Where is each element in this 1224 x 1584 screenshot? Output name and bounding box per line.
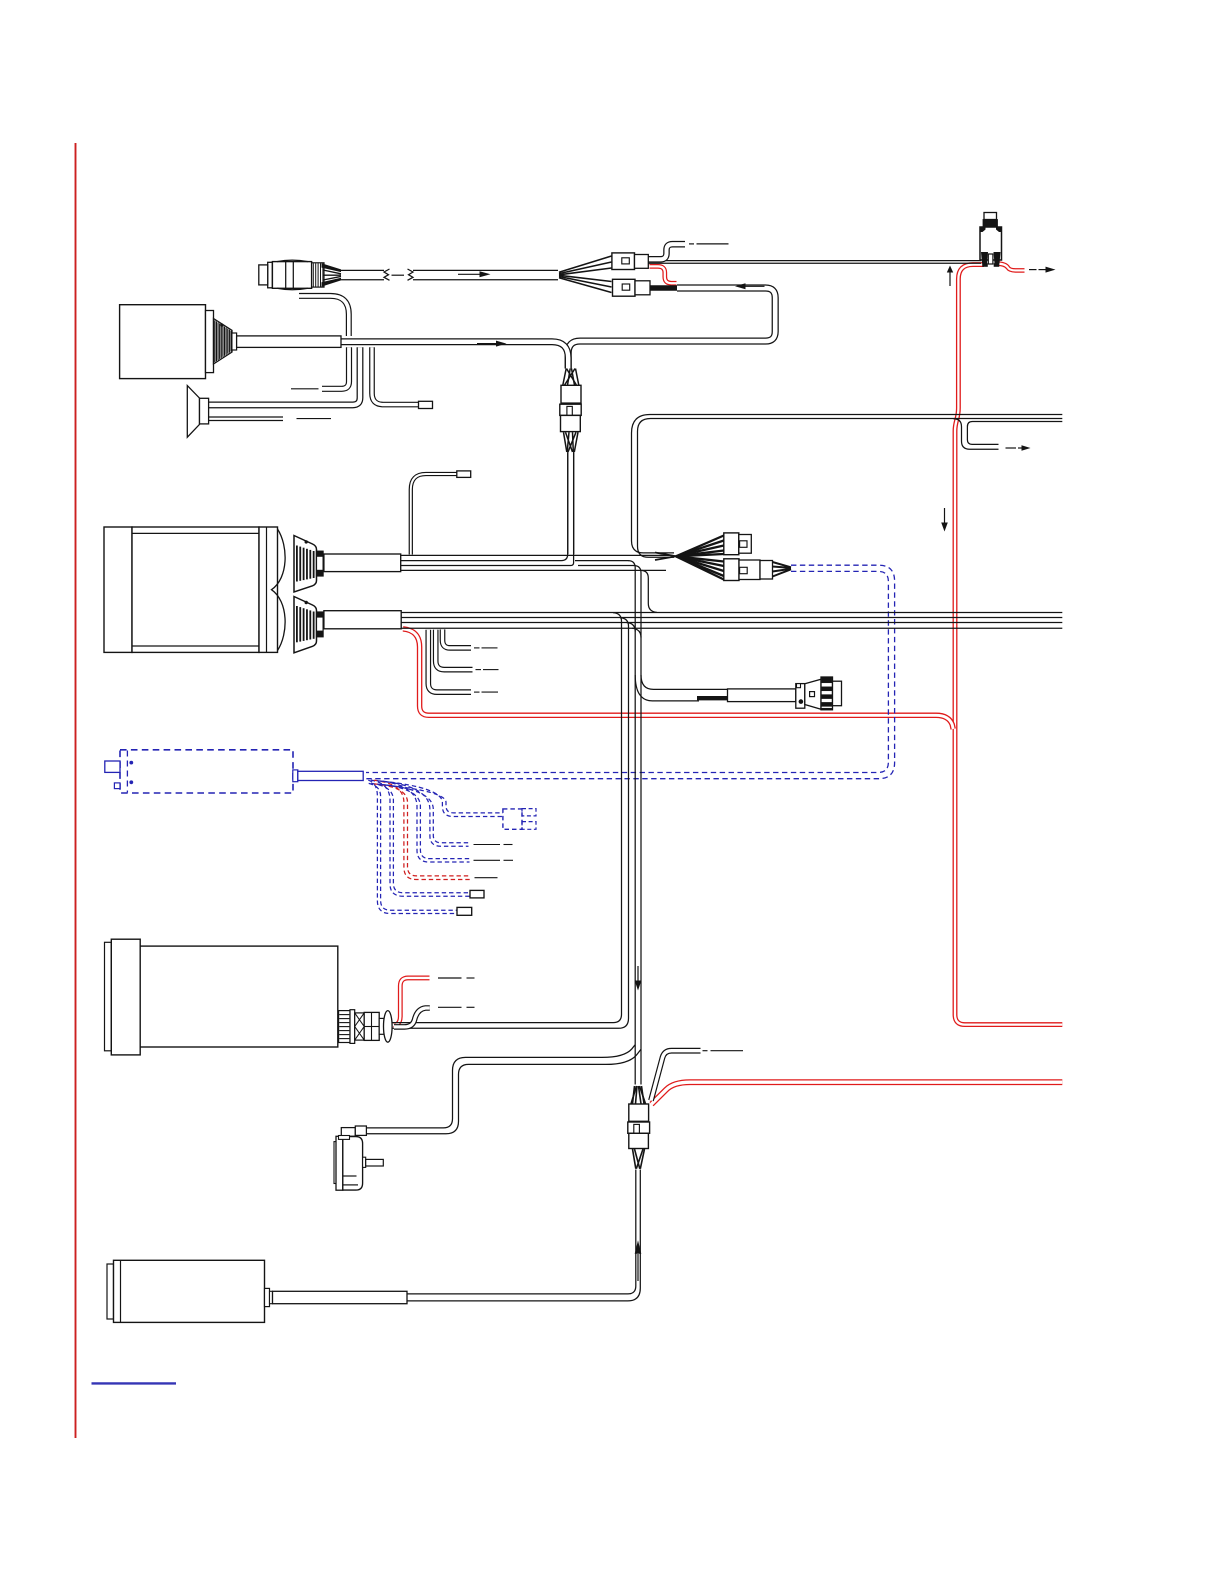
ignition coil terminal nub 2 xyxy=(270,1291,273,1303)
dual-speaker driver left cap xyxy=(104,527,132,652)
wire black pigtail at canister pump connector xyxy=(394,1008,430,1027)
upper sheath exit line 4 xyxy=(401,569,667,571)
circuit breaker body xyxy=(980,227,1002,260)
lower inline connector tab xyxy=(622,284,630,290)
microphone plug crimp zone xyxy=(312,263,324,287)
wire down-branch 2 joining horn lead xyxy=(209,347,361,405)
cable break gap dash xyxy=(392,274,405,276)
toggle switch actuator step xyxy=(363,1157,366,1167)
upper head plug rib top (black) xyxy=(317,551,324,556)
crimp wedge bottom (black) xyxy=(322,278,342,287)
junction curves bundle to riser pair B xyxy=(627,623,636,632)
stub wire 2 from bundle with label leader xyxy=(436,630,473,670)
lower sheath harness bundle line 4 xyxy=(401,627,1062,629)
lower horn head dot xyxy=(305,601,308,604)
black leader on dashed fan lead 5 xyxy=(474,844,501,846)
crimp hatch lines xyxy=(312,263,314,286)
lower sheath harness bundle line 3 xyxy=(401,622,1062,624)
breaker ear top-right (black) xyxy=(996,227,1002,232)
wire from siren driver sheath to tee corner above splice xyxy=(341,338,552,345)
ignition coil lead sheath xyxy=(273,1291,408,1303)
upper mating plug right half xyxy=(739,535,752,554)
thick converging stub at flasher connector xyxy=(697,696,728,700)
microphone plug end cap xyxy=(259,265,268,285)
splice connector fan-out strands xyxy=(633,1149,636,1169)
label leader stub wire 1 xyxy=(474,647,480,649)
horn bell xyxy=(187,386,199,438)
siren driver cone (hatched) xyxy=(214,319,233,364)
breaker terminal right (black) xyxy=(994,252,1001,264)
toggle switch inner line 2 xyxy=(343,1184,358,1186)
lower mating plug tab xyxy=(740,567,748,573)
cable break symbol right zigzag xyxy=(408,269,414,280)
wire red branch from lower sheath of dual-speaker driver, runs right, merges into red trunk xyxy=(403,629,953,729)
label leader arrow right of breaker xyxy=(1029,269,1037,271)
canister pump connector boot (oval) xyxy=(384,1011,393,1043)
siren driver cable sheath xyxy=(237,336,341,348)
driver body inner line bottom xyxy=(132,645,259,647)
relay module (blue dashed outline box) xyxy=(120,750,293,793)
splice connector lower body xyxy=(629,1133,649,1148)
microphone plug barrel bulge bottom xyxy=(277,288,308,290)
flasher ribbed ring xyxy=(821,677,833,710)
lower inline connector right half xyxy=(635,281,650,295)
splice connector mating collar xyxy=(628,1122,650,1133)
lower head plug rib top (black) xyxy=(317,612,324,617)
crimp strands xyxy=(323,270,341,274)
label leader at branch 1 stub xyxy=(291,388,319,390)
flow arrow up on splice-to-coil wire xyxy=(637,1254,639,1281)
upper inline connector body xyxy=(612,253,635,270)
tee corner down into splice xyxy=(552,342,568,369)
upper head plug xyxy=(317,551,324,576)
splice collar tab xyxy=(634,1124,640,1133)
siren driver right band xyxy=(206,311,214,373)
lower mating plug body xyxy=(724,559,739,581)
wire blue dashed fan lead 1 (longest) with terminal xyxy=(368,780,457,913)
flasher connector cable sheath xyxy=(728,689,796,702)
wire blue dashed fan lead 4 xyxy=(377,781,470,862)
flow arrow down on riser pair B xyxy=(637,966,639,981)
inline splice connector fan-out strands xyxy=(564,432,567,452)
breaker terminal foot right (black) xyxy=(994,264,999,267)
wire spade pigtail from upper sheath of dual-speaker driver xyxy=(411,474,457,555)
mid vertical riser 3 short, merges bundle xyxy=(641,570,657,612)
flow arrow up near breaker xyxy=(949,272,951,286)
wire main run from inline connectors to circuit breaker xyxy=(648,260,981,262)
lower horn head xyxy=(294,597,317,653)
harness fan point black strands to dual plugs xyxy=(676,536,724,557)
splice connector upper body xyxy=(629,1104,649,1121)
canister pump cap xyxy=(111,939,140,1055)
wire down-branch 1 to label stub at left xyxy=(322,347,349,389)
lower inline connector body xyxy=(613,279,636,296)
ignition coil box xyxy=(114,1260,265,1322)
wire label pigtail from upper inline connector xyxy=(649,244,686,259)
siren driver plug xyxy=(232,333,237,350)
inline splice connector mating collar xyxy=(560,404,581,415)
upper inline connector right half xyxy=(635,255,649,269)
label leader at canister black pigtail xyxy=(438,1006,462,1008)
canister pump body xyxy=(140,946,338,1047)
wire blue dashed fan lead 6 to small plug xyxy=(383,781,503,816)
label leader at splice black pigtail xyxy=(703,1050,708,1052)
mid vertical riser 2 xyxy=(634,566,641,1085)
flasher connector tapered body xyxy=(805,679,821,709)
wire red jumper from upper inline connector down to lower inline connector stub xyxy=(650,266,677,283)
ignition coil thin left plate xyxy=(107,1264,114,1319)
inline splice connector fan-in strands xyxy=(563,369,566,386)
wire red stub from breaker output terminal to arrow leader xyxy=(997,264,1025,271)
junction feed line 1 xyxy=(575,560,629,562)
cable break symbol left zigzag xyxy=(384,269,390,280)
flow arrow left on loop wire xyxy=(744,285,765,287)
flasher connector latch xyxy=(796,684,805,709)
fan point converging strands from left xyxy=(655,553,676,557)
wire horn lower stub xyxy=(209,416,284,421)
terminal on dashed fan lead 2 xyxy=(470,890,484,898)
horn throat box xyxy=(200,398,209,424)
upper cable sheath xyxy=(324,554,401,572)
driver band inner line xyxy=(266,527,268,652)
upper sheath exit line 2 curving up into inline splice xyxy=(401,453,568,561)
wire cable from microphone plug, segment after break to harness fan xyxy=(413,269,558,271)
siren driver cone hatch lines xyxy=(214,320,216,362)
wire black pigtail with leader at splice connector xyxy=(651,1051,701,1101)
lower sheath harness bundle line 1 xyxy=(401,612,1062,614)
breaker center tab xyxy=(988,254,993,264)
relay module mounting nub lower xyxy=(114,783,120,789)
canister pump outer cap xyxy=(105,942,112,1051)
upper inline connector tab xyxy=(622,258,630,264)
dual-speaker driver body xyxy=(132,527,259,652)
wire branch to down-right arrow leader xyxy=(967,422,1062,445)
driver body inner line top xyxy=(132,532,259,534)
relay module left cap line xyxy=(126,751,128,793)
black leader on dashed fan lead 3 xyxy=(475,877,498,879)
label leader stub wire 3 xyxy=(474,691,480,693)
wire pair from main-run corner down to harness fan point xyxy=(632,415,1063,553)
junction feed line 2 xyxy=(578,565,634,567)
canister pump connector housing xyxy=(364,1012,379,1040)
label leader stub wire 2 xyxy=(476,669,482,671)
lower head plug xyxy=(317,612,324,637)
black leader on dashed fan lead 4 xyxy=(474,859,501,861)
toggle switch terminal tab xyxy=(355,1126,366,1135)
toggle switch flange bar xyxy=(339,1136,350,1140)
relay module terminal dot lower xyxy=(129,780,133,784)
flow arrow on microphone cable xyxy=(458,273,480,275)
wire blue dashed fan lead 2 with terminal xyxy=(371,780,471,896)
flasher ring ribs (black) xyxy=(822,677,832,682)
lower horn head vent slots xyxy=(296,606,298,642)
canister pump ribbed strain relief xyxy=(339,1011,350,1043)
wire up-branch from siren driver sheath to label stub xyxy=(299,296,349,336)
wire red pigtail at canister pump connector xyxy=(394,978,430,1025)
crimp wedge top (black) xyxy=(322,263,342,272)
wire blue dashed main lead from relay plug fan to relay module, right then down then left xyxy=(366,565,895,779)
small dashed plug on fan lead 6 xyxy=(503,809,522,829)
flasher latch dot (black) xyxy=(799,699,804,704)
inline splice connector upper body xyxy=(561,385,581,403)
breaker terminal foot left (black) xyxy=(983,264,988,267)
toggle switch left panel xyxy=(336,1136,343,1190)
wire red trunk from circuit breaker down right side, bend right at bottom xyxy=(955,265,1062,1025)
label leader at canister red pigtail xyxy=(438,977,462,979)
flow arrow down on red trunk xyxy=(944,508,946,523)
lower plug right fan strands to blue lead xyxy=(773,562,792,567)
driver right band xyxy=(259,527,278,652)
splice connector fan-in strands xyxy=(633,1086,635,1104)
inline splice connector lower body xyxy=(561,415,581,431)
circuit breaker button band (black) xyxy=(983,220,998,228)
relay module lead sheath step xyxy=(293,770,298,782)
wire red battery feed ending at right, from splice connector fan xyxy=(652,1082,1063,1104)
upper horn head vent slots xyxy=(296,546,298,582)
upper horn head xyxy=(294,536,317,593)
breaker ear top-left (black) xyxy=(980,227,986,232)
label leader arrow at mid-right branch xyxy=(1006,447,1017,449)
circuit breaker reset button xyxy=(984,213,997,220)
lower head plug rib bottom (black) xyxy=(317,631,324,636)
wire from splice connector down and left to ignition coil box xyxy=(407,1170,636,1294)
microphone plug barrel xyxy=(272,262,311,289)
upper horn head dot xyxy=(305,540,308,543)
canister pump connector step xyxy=(379,1018,384,1034)
red page border line (left) xyxy=(75,143,77,1438)
hyperlink underline bottom left xyxy=(92,1382,177,1384)
wire loop from lower inline connector right, down and back left into splice xyxy=(568,288,775,369)
driver brace curve xyxy=(272,529,286,651)
spade terminal on branch 3 xyxy=(419,401,433,408)
toggle switch thin left plate xyxy=(334,1142,336,1184)
inline splice lower wire pair xyxy=(567,452,569,554)
mid vertical riser 1 from upper junction through bundle down to splice fan xyxy=(628,561,635,1085)
upper mating plug tab xyxy=(740,541,747,548)
relay module terminal dot upper xyxy=(129,761,133,765)
upper sheath exit line 3 curving up into inline splice xyxy=(401,453,574,566)
upper mating plug body xyxy=(724,533,739,555)
ignition coil terminal nub xyxy=(265,1288,270,1306)
label leader at upper inline connector xyxy=(689,243,694,245)
flow arrow on siren driver lead xyxy=(477,343,497,345)
toggle switch actuator lever xyxy=(366,1159,384,1166)
lower sheath harness bundle line 2 xyxy=(401,617,1062,619)
ignition coil box inner line xyxy=(120,1260,122,1322)
breaker terminal left (black) xyxy=(981,252,988,264)
siren driver cone dot xyxy=(220,323,223,326)
cable fan strands into dual inline connectors xyxy=(559,256,612,272)
wire toggle switch lead rising and merging riser pair B xyxy=(367,1045,636,1128)
flasher latch nub xyxy=(797,684,801,688)
lower mating plug right part xyxy=(760,561,773,580)
wire blue dashed fan lead 5 xyxy=(380,781,469,846)
small dashed plug pin lower xyxy=(522,822,536,830)
microphone plug barrel bulge top xyxy=(277,260,308,262)
canister pump flange xyxy=(350,1010,355,1044)
lower cable sheath xyxy=(324,611,401,629)
canister pump x-hatch block xyxy=(355,1013,365,1040)
upper sheath exit line 1 xyxy=(401,554,673,556)
label leader at horn lower stub xyxy=(297,418,332,420)
relay module lead sheath xyxy=(298,771,363,780)
toggle switch top step xyxy=(341,1128,355,1137)
upper head plug rib bottom (black) xyxy=(317,570,324,575)
wire red dashed fan lead 3 xyxy=(374,780,471,879)
small dashed plug pin upper xyxy=(522,809,536,816)
microphone plug barrel divider 1 xyxy=(285,262,287,289)
toggle switch body (rounded right) xyxy=(343,1137,363,1191)
relay module mounting tab upper xyxy=(105,761,120,772)
microphone plug barrel divider 2 xyxy=(292,262,294,289)
inline splice connector collar tab xyxy=(567,406,572,415)
flasher body window xyxy=(810,692,815,697)
toggle switch inner line 1 xyxy=(343,1175,357,1177)
stub wire 1 from bundle with label leader xyxy=(443,629,472,648)
terminal on dashed fan lead 1 xyxy=(457,907,472,915)
microphone plug flange xyxy=(268,262,273,288)
flasher end cap xyxy=(833,681,842,706)
wire pair A: canister pump lead rising into bundle xyxy=(390,613,622,1023)
stub wire 3 from bundle with label leader xyxy=(428,630,471,692)
wire cable from microphone plug, segment before break symbol xyxy=(341,269,384,271)
thick wire stub at lower inline connector xyxy=(650,285,677,291)
spade terminal on upper-sheath pigtail xyxy=(457,471,471,478)
lower mating plug middle xyxy=(739,560,760,580)
wire branch to flasher connector xyxy=(641,675,728,689)
siren driver box xyxy=(120,305,206,379)
wire down-branch 3 to spade terminal xyxy=(372,347,419,404)
